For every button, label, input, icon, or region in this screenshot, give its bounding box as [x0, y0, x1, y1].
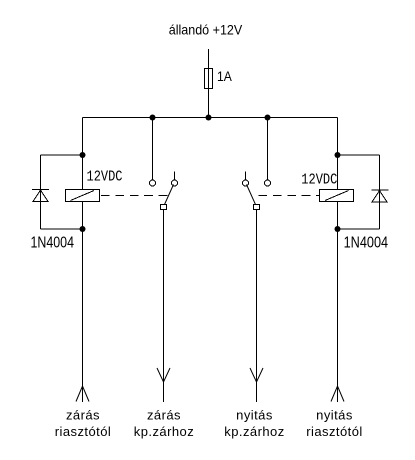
diode D2 triangle [372, 191, 387, 203]
svg-text:állandó +12V: állandó +12V [169, 22, 243, 38]
junction node right diode bottom [335, 226, 341, 232]
junction node bus-left-switch [150, 115, 156, 121]
junction node bus-right-switch [265, 115, 271, 121]
junction node left diode top [80, 152, 86, 158]
fuse F1 [205, 69, 213, 89]
wire left relay to output [82, 202, 84, 403]
switch S2 terminal B stub [245, 172, 247, 181]
svg-text:1N4004: 1N4004 [31, 235, 75, 252]
svg-text:1A: 1A [217, 68, 232, 84]
relay coil K1 [66, 190, 100, 202]
arrowhead output 3 (to lock, down) [250, 368, 263, 382]
junction node left diode bottom [80, 226, 86, 232]
arrowhead output 1 (from alarm, up) [76, 386, 89, 402]
wire bus to left relay [82, 118, 84, 190]
diode D1 triangle [33, 190, 48, 202]
switch S2 common terminal [254, 205, 260, 210]
wire bus to right relay [337, 118, 339, 190]
svg-text:kp.zárhoz: kp.zárhoz [134, 424, 194, 439]
svg-text:nyitás: nyitás [236, 408, 273, 423]
wire S2 common to output [256, 210, 258, 403]
wire left diode branch bottom [41, 228, 83, 230]
switch S1 lever [165, 185, 174, 205]
switch S1 terminal A [150, 180, 156, 186]
wire supply feed [208, 49, 210, 118]
wire right diode branch bottom [338, 228, 380, 230]
mech linkage dashed right [259, 195, 321, 197]
junction node bus-center [206, 115, 212, 121]
switch S2 lever [247, 185, 256, 205]
relay coil K2 [320, 190, 354, 202]
wire right diode branch top [338, 154, 380, 156]
svg-text:riasztótól: riasztótól [55, 424, 112, 439]
switch S1 terminal B [172, 180, 178, 186]
wire bus to left switch [152, 118, 154, 181]
arrowhead output 4 (from alarm, up) [331, 386, 344, 402]
svg-text:riasztótól: riasztótól [306, 424, 363, 439]
diode D2 cathode bar [372, 189, 389, 191]
wire left diode branch top [41, 154, 83, 156]
wire bus to right switch [267, 118, 269, 181]
svg-text:kp.zárhoz: kp.zárhoz [224, 424, 284, 439]
wire right relay to output [337, 202, 339, 403]
diode D1 cathode bar [32, 189, 49, 191]
svg-text:nyitás: nyitás [316, 408, 353, 423]
svg-text:zárás: zárás [66, 408, 100, 423]
svg-text:12VDC: 12VDC [87, 170, 123, 186]
arrowhead output 2 (to lock, down) [157, 368, 170, 382]
switch S2 terminal B [243, 180, 249, 186]
switch S1 terminal B stub [174, 172, 176, 181]
svg-text:1N4004: 1N4004 [344, 235, 389, 252]
switch S2 terminal A [265, 180, 271, 186]
junction node right diode top [335, 152, 341, 158]
svg-text:12VDC: 12VDC [301, 173, 337, 189]
wire S1 common to output [163, 210, 165, 403]
mech linkage dashed left [101, 195, 168, 197]
wire bus +12V [83, 117, 338, 119]
svg-text:zárás: zárás [147, 408, 181, 423]
switch S1 common terminal [161, 205, 167, 210]
